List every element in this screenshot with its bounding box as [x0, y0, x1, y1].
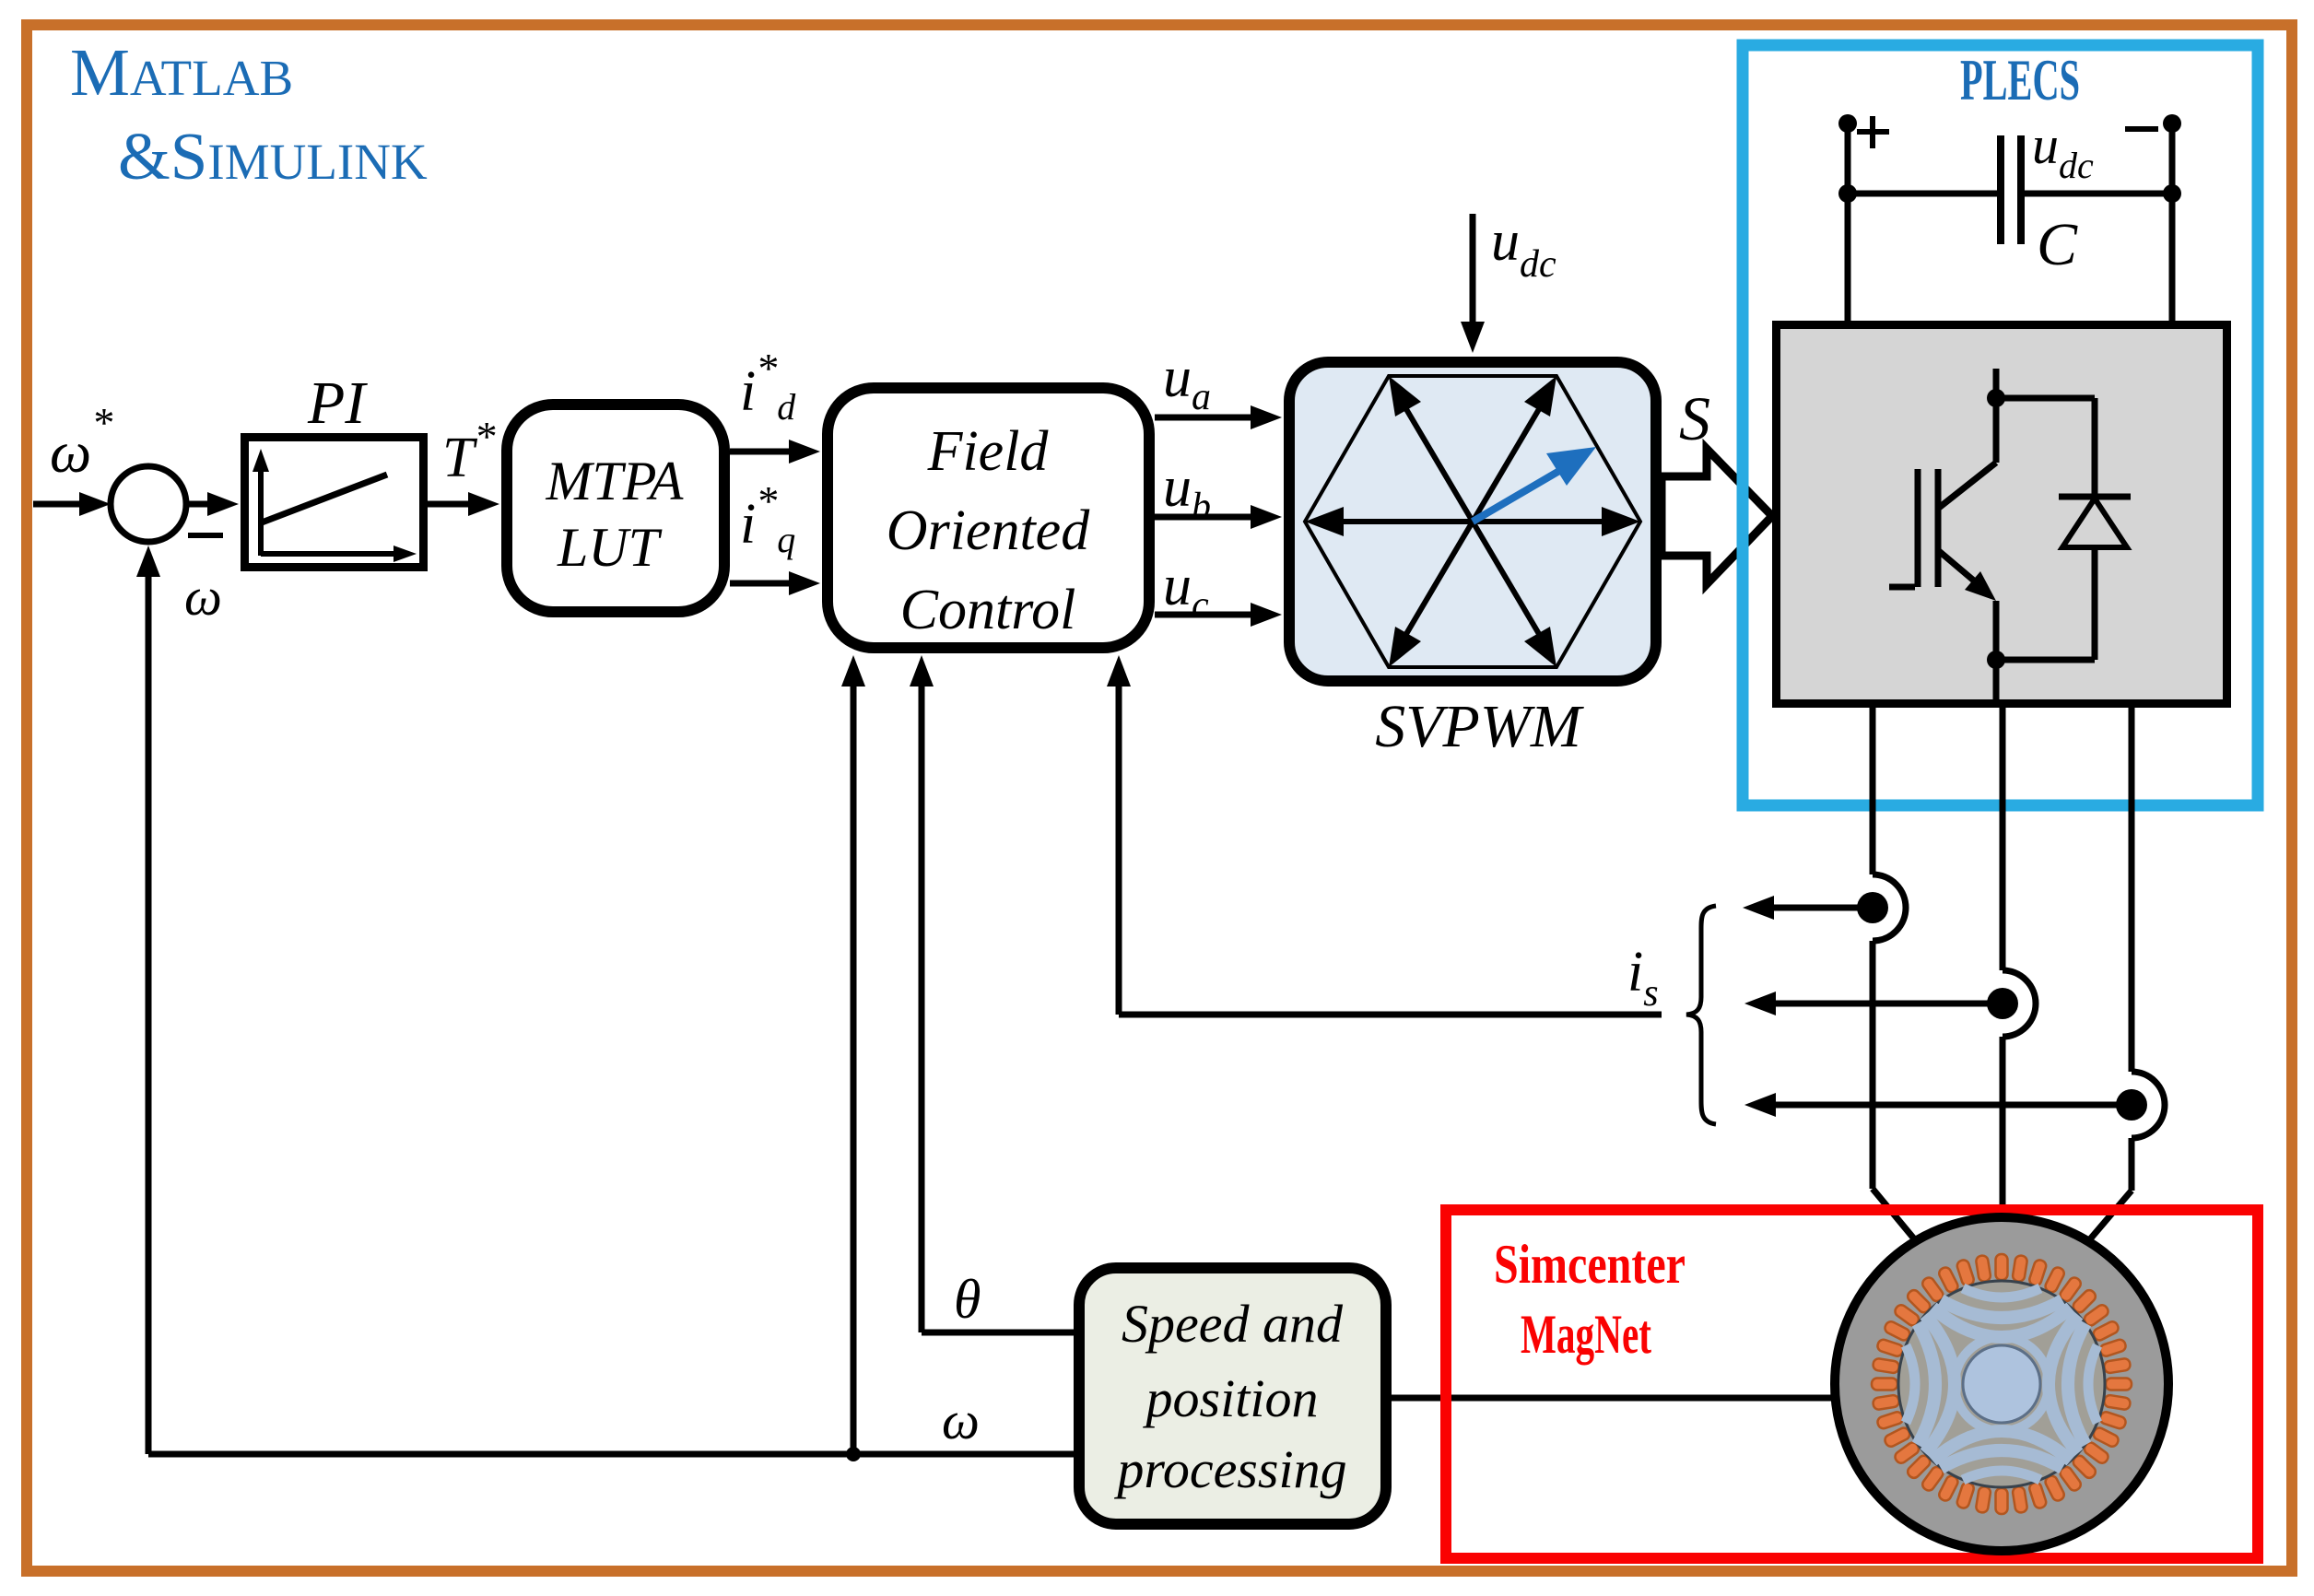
wire phase b from inverter [2003, 708, 2036, 1226]
brace for is [1686, 906, 1716, 1124]
Field Oriented Control block U-FOC [828, 388, 1149, 648]
node omega label near speed block [942, 1391, 980, 1450]
svg-text:Control: Control [900, 579, 1076, 641]
wire summing junction to PI [186, 492, 239, 516]
svg-text:PLECS: PLECS [1960, 48, 2080, 112]
current sensor phase c [1744, 1089, 2147, 1121]
current sensor phase b [1744, 988, 2018, 1019]
wire theta Speed block to FOC [910, 655, 1074, 1332]
wire dc bus right [2024, 123, 2181, 321]
blue reference vector arrow [1473, 447, 1596, 522]
MTPA LUT block [507, 405, 724, 612]
wire phase c from inverter [2078, 708, 2165, 1253]
inverter block [1777, 325, 2227, 704]
wire dc bus left [1838, 123, 1997, 321]
svg-text:PI: PI [307, 370, 368, 437]
wire omega* input arrow [33, 492, 111, 516]
svg-text:MTPA: MTPA [546, 451, 684, 511]
Speed and position processing block [1079, 1268, 1386, 1524]
wire i*d MTPA to FOC [730, 345, 820, 464]
wire uc FOC to SVPWM [1155, 555, 1282, 627]
svg-text:Oriented: Oriented [887, 499, 1090, 562]
wire ub FOC to SVPWM [1155, 456, 1282, 529]
Simcenter MagNet boundary box [1446, 1210, 2258, 1558]
node minus terminal [2125, 114, 2181, 133]
node is label [1627, 941, 1659, 1015]
S label [1679, 383, 1710, 453]
svg-text:ω: ω [184, 567, 222, 627]
node omega* input label [50, 399, 112, 485]
MATLAB & Simulink label [70, 35, 428, 194]
SVPWM block [1289, 362, 1656, 681]
wire ua FOC to SVPWM [1155, 346, 1282, 429]
svg-text:Field: Field [927, 420, 1050, 483]
IGBT Q1 [1889, 369, 2005, 708]
wire i*q MTPA to FOC [730, 477, 820, 595]
wire PI to MTPA, T* [428, 413, 499, 516]
node theta label [954, 1269, 981, 1330]
summing junction [111, 466, 186, 542]
svg-text:ω: ω [942, 1391, 980, 1450]
PLECS boundary box [1743, 45, 2258, 805]
node plus terminal [1838, 114, 1889, 148]
svg-text:Simcenter: Simcenter [1494, 1234, 1686, 1295]
wire udc input to SVPWM [1461, 210, 1556, 353]
svg-text:θ: θ [954, 1269, 981, 1330]
PLECS label [1960, 48, 2080, 112]
wire is feedback to FOC [1107, 655, 1662, 1015]
svg-text:position: position [1143, 1368, 1319, 1428]
SVPWM label [1375, 693, 1585, 760]
wire motor to speed block [1392, 1395, 1838, 1402]
svg-text:Speed and: Speed and [1122, 1294, 1344, 1354]
big S bus arrow [1662, 449, 1772, 584]
Simcenter MagNet label [1494, 1234, 1686, 1365]
PI controller block [245, 438, 424, 568]
PI label [307, 370, 368, 437]
svg-text:LUT: LUT [557, 517, 663, 578]
svg-text:MagNet: MagNet [1521, 1304, 1651, 1365]
minus sign at summing junction [188, 533, 223, 538]
hexagon space vector diagram [1305, 376, 1640, 667]
svg-text:processing: processing [1113, 1439, 1346, 1499]
freewheeling diode D1 [1996, 398, 2131, 660]
motor PMSM cross-section [1835, 1217, 2168, 1551]
capacitor C [2001, 115, 2094, 278]
node omega feedback label [184, 567, 222, 627]
wire omega feedback [136, 546, 1074, 1461]
svg-text:SVPWM: SVPWM [1375, 693, 1585, 760]
svg-text:C: C [2037, 211, 2078, 278]
current sensor phase a [1743, 892, 1888, 923]
wire phase a from inverter [1873, 708, 1926, 1253]
